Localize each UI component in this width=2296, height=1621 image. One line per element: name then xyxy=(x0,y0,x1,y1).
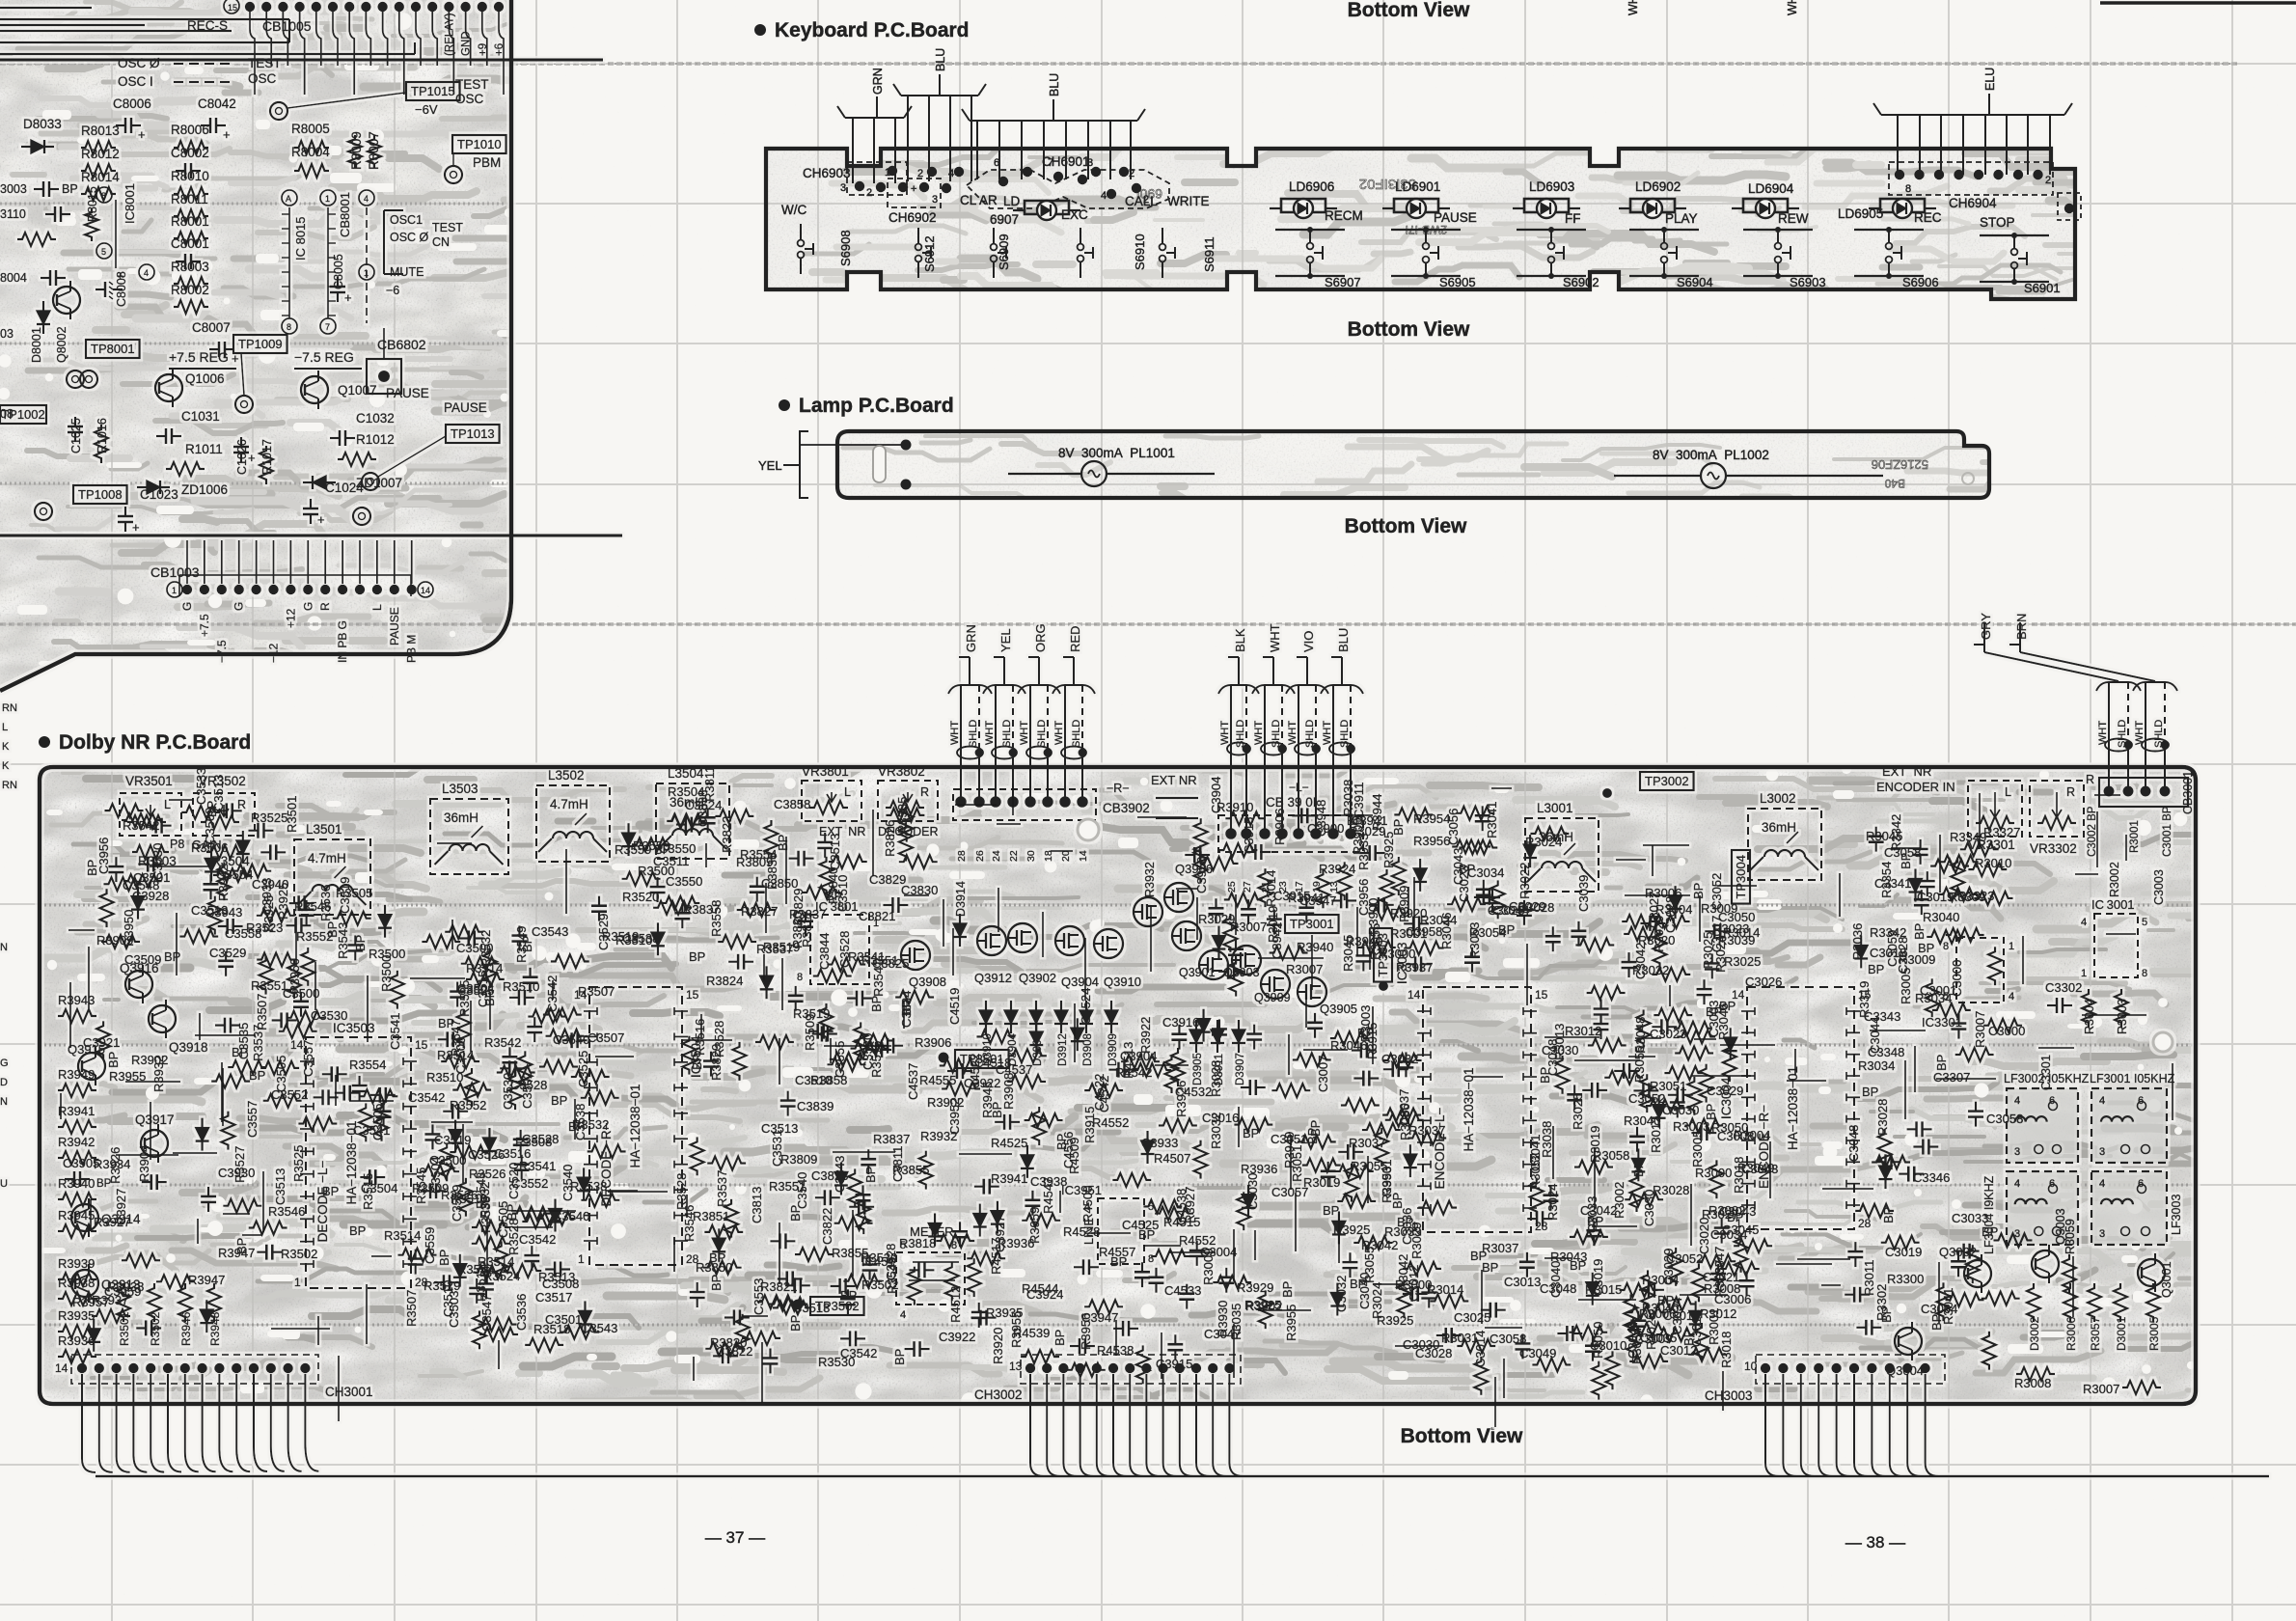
transistor Q8002 xyxy=(53,287,80,314)
horizontal wire y=555 xyxy=(0,535,622,537)
svg-text:C3542: C3542 xyxy=(519,1232,556,1247)
svg-text:BP: BP xyxy=(505,1204,519,1221)
svg-text:C3519: C3519 xyxy=(434,1133,471,1147)
svg-text:D8033: D8033 xyxy=(23,117,62,131)
svg-text:R8002: R8002 xyxy=(171,283,209,297)
svg-text:WRITE: WRITE xyxy=(1167,194,1210,208)
svg-text:BP: BP xyxy=(164,949,180,964)
svg-text:D3907: D3907 xyxy=(1235,1053,1246,1085)
svg-text:D3912: D3912 xyxy=(1057,1033,1069,1066)
svg-text:C3341: C3341 xyxy=(1874,876,1911,891)
svg-text:R3036: R3036 xyxy=(1850,923,1865,960)
svg-text:R3031: R3031 xyxy=(1441,1331,1478,1345)
svg-text:R3002: R3002 xyxy=(2108,862,2121,897)
svg-text:WH: WH xyxy=(1786,0,1799,15)
svg-text:R4552: R4552 xyxy=(1092,1115,1129,1130)
inductor L3501 xyxy=(294,839,370,915)
filter LF3002 105KHZ xyxy=(2007,1088,2078,1163)
svg-text:R4500: R4500 xyxy=(1080,1186,1095,1223)
svg-text:S6906: S6906 xyxy=(1902,275,1939,289)
svg-text:R3038: R3038 xyxy=(1341,780,1355,816)
svg-text:C3508: C3508 xyxy=(542,1277,579,1291)
svg-text:Q3909: Q3909 xyxy=(1254,991,1291,1004)
transistor Q3001 xyxy=(2138,1259,2165,1286)
FET Q3908 xyxy=(901,941,930,970)
svg-text:LD6904: LD6904 xyxy=(1748,181,1794,196)
svg-text:CB1005: CB1005 xyxy=(262,18,312,34)
test point TP1008 xyxy=(73,485,127,504)
FET Q3901 xyxy=(1199,950,1228,979)
svg-text:R4547: R4547 xyxy=(1041,1177,1055,1214)
svg-text:R3925: R3925 xyxy=(276,883,290,920)
svg-text:C4537: C4537 xyxy=(906,1063,920,1100)
svg-text:R3000: R3000 xyxy=(1695,1166,1732,1180)
svg-text:C3513: C3513 xyxy=(828,834,842,870)
svg-text:20: 20 xyxy=(1060,850,1072,862)
svg-text:C1032: C1032 xyxy=(356,411,395,426)
svg-text:R3507: R3507 xyxy=(404,1290,419,1327)
svg-text:Q3908: Q3908 xyxy=(909,975,946,989)
svg-text:TEST: TEST xyxy=(432,221,463,234)
svg-text:Q8002: Q8002 xyxy=(55,326,68,363)
transistor Q3004 xyxy=(1895,1328,1922,1355)
svg-text:C3530: C3530 xyxy=(311,1008,347,1023)
svg-text:R3938: R3938 xyxy=(58,1276,95,1290)
svg-text:R3537: R3537 xyxy=(251,1025,265,1061)
svg-text:HA−12038−01: HA−12038−01 xyxy=(1462,1067,1476,1151)
switch S6903 xyxy=(1743,229,1813,231)
svg-text:R3836: R3836 xyxy=(765,853,779,890)
svg-text:BP: BP xyxy=(1982,1224,1998,1239)
svg-text:G: G xyxy=(0,1058,9,1069)
svg-text:W/C: W/C xyxy=(781,203,806,217)
svg-text:BP: BP xyxy=(353,935,368,951)
keyboard board: light PCB texture xyxy=(766,149,2078,303)
svg-text:C3542: C3542 xyxy=(408,1090,445,1105)
svg-text:S6911: S6911 xyxy=(1202,236,1216,272)
svg-text:R4555: R4555 xyxy=(919,1073,956,1087)
svg-text:36mH: 36mH xyxy=(1762,820,1796,835)
svg-text:4: 4 xyxy=(1101,190,1107,202)
svg-text:C3823: C3823 xyxy=(811,1168,848,1183)
svg-text:R8013: R8013 xyxy=(81,124,120,138)
svg-text:R3034: R3034 xyxy=(1858,1058,1895,1073)
svg-text:Q3001: Q3001 xyxy=(2160,1261,2173,1298)
svg-text:4: 4 xyxy=(900,1309,906,1321)
svg-text:R3942: R3942 xyxy=(216,865,231,901)
svg-text:C3959: C3959 xyxy=(104,1284,141,1299)
svg-text:OSC I: OSC I xyxy=(118,74,153,89)
svg-text:R3538: R3538 xyxy=(570,1179,607,1194)
svg-text:R4513: R4513 xyxy=(1121,1042,1135,1079)
top-left schematic board border xyxy=(0,0,511,691)
svg-text:C3030: C3030 xyxy=(1245,1173,1260,1210)
svg-text:BP: BP xyxy=(869,996,884,1012)
svg-text:L: L xyxy=(370,604,384,611)
svg-text:STOP: STOP xyxy=(1980,215,2015,230)
svg-text:+: + xyxy=(132,520,140,535)
svg-text:R3818: R3818 xyxy=(899,1236,936,1250)
svg-text:D: D xyxy=(0,1077,8,1088)
IC3951 LINE dashed xyxy=(1098,1198,1144,1264)
svg-text:C4542: C4542 xyxy=(1097,1076,1111,1113)
svg-text:1: 1 xyxy=(2081,968,2087,979)
svg-text:14: 14 xyxy=(1408,988,1421,1002)
svg-text:R3012: R3012 xyxy=(1565,1024,1601,1038)
svg-text:R3525: R3525 xyxy=(291,1145,306,1182)
svg-text:R3541: R3541 xyxy=(519,1159,556,1173)
svg-text:BP: BP xyxy=(788,1205,803,1222)
svg-text:R3936: R3936 xyxy=(1241,1162,1277,1176)
svg-text:8004: 8004 xyxy=(0,271,27,285)
svg-text:C3029: C3029 xyxy=(1509,899,1545,914)
svg-text:SHLD: SHLD xyxy=(1235,720,1246,748)
svg-text:C3052: C3052 xyxy=(1628,1091,1665,1106)
svg-text:R3037: R3037 xyxy=(1482,1241,1518,1255)
svg-text:R3501: R3501 xyxy=(285,796,299,833)
svg-text:R3014: R3014 xyxy=(1264,870,1278,907)
diode D8001 xyxy=(37,311,50,324)
svg-text:C3559: C3559 xyxy=(423,1227,437,1264)
svg-text:30: 30 xyxy=(1025,850,1037,862)
svg-text:8: 8 xyxy=(2142,968,2147,979)
transistor Q3916 xyxy=(125,971,152,998)
svg-text:R3501: R3501 xyxy=(118,1311,131,1346)
svg-text:Q3912: Q3912 xyxy=(974,971,1012,985)
test point TP1002 xyxy=(0,405,46,424)
svg-text:C3517: C3517 xyxy=(535,1290,572,1305)
svg-text:4: 4 xyxy=(2009,991,2014,1003)
svg-text:CB 39 0I: CB 39 0I xyxy=(1266,795,1317,810)
svg-text:C3513: C3513 xyxy=(191,903,228,918)
svg-text:C3001: C3001 xyxy=(1920,983,1956,998)
svg-text:BP: BP xyxy=(1280,1281,1295,1298)
svg-text:BRN: BRN xyxy=(2014,614,2029,640)
svg-text:BP: BP xyxy=(689,949,705,964)
svg-text:BP: BP xyxy=(709,1275,724,1291)
svg-text:LD: LD xyxy=(1003,194,1021,208)
svg-text:R3022: R3022 xyxy=(1517,863,1532,899)
svg-text:C3032: C3032 xyxy=(1381,1052,1418,1066)
svg-text:C3500: C3500 xyxy=(283,986,319,1001)
svg-text:R3956: R3956 xyxy=(1413,834,1450,848)
svg-text:R3945: R3945 xyxy=(980,1082,995,1118)
svg-text:BP: BP xyxy=(1719,999,1736,1013)
IC3003 ENCODE -L- HA-12038-01 xyxy=(1423,987,1531,1232)
svg-text:4.7mH: 4.7mH xyxy=(550,797,588,811)
svg-text:8: 8 xyxy=(287,322,291,332)
transistor Q3913 xyxy=(71,1270,98,1297)
svg-text:BP: BP xyxy=(1657,1293,1674,1307)
test point TP3002 xyxy=(1640,772,1694,790)
svg-text:C4533: C4533 xyxy=(1164,1283,1201,1298)
switch S6912 xyxy=(917,228,919,244)
svg-text:L3501: L3501 xyxy=(306,822,342,837)
svg-text:C4519: C4519 xyxy=(947,988,962,1025)
svg-text:C8042: C8042 xyxy=(198,96,236,111)
svg-text:R3029: R3029 xyxy=(1652,916,1666,952)
FET Q3912 xyxy=(977,926,1006,955)
svg-text:R3516: R3516 xyxy=(693,1019,707,1056)
svg-text:BP: BP xyxy=(1323,1203,1339,1218)
potentiometer VR3502 xyxy=(193,793,255,836)
svg-text:R3935: R3935 xyxy=(58,1308,95,1323)
svg-text:C3916: C3916 xyxy=(1162,1015,1199,1030)
wire bundle BLU 1 xyxy=(893,84,986,96)
svg-text:4: 4 xyxy=(2099,1178,2105,1190)
svg-text:WHT: WHT xyxy=(1019,721,1030,745)
svg-text:CL AR: CL AR xyxy=(960,193,998,207)
svg-text:C3541: C3541 xyxy=(388,1013,402,1050)
svg-text:LD6901: LD6901 xyxy=(1395,179,1440,194)
svg-text:C3900: C3900 xyxy=(1307,821,1344,836)
svg-text:C3513: C3513 xyxy=(273,1168,287,1205)
switch S6911 xyxy=(1162,228,1163,244)
svg-text:14: 14 xyxy=(55,1361,68,1375)
svg-text:PAUSE: PAUSE xyxy=(386,386,429,400)
IC451 METER dashed xyxy=(896,1252,965,1305)
svg-text:— 38 —: — 38 — xyxy=(1845,1533,1905,1552)
svg-text:BP: BP xyxy=(1918,941,1934,955)
svg-text:WHT: WHT xyxy=(1268,623,1282,652)
svg-text:36mH: 36mH xyxy=(444,810,478,825)
svg-text:+: + xyxy=(117,269,123,283)
svg-text:C1031: C1031 xyxy=(181,409,220,424)
svg-text:R3947: R3947 xyxy=(188,1273,225,1287)
svg-text:R3924: R3924 xyxy=(1319,862,1355,876)
svg-text:R3851: R3851 xyxy=(693,1209,729,1223)
node BP xyxy=(34,188,43,190)
svg-text:SHLD: SHLD xyxy=(968,720,979,748)
svg-text:IC 3001: IC 3001 xyxy=(2091,897,2135,912)
title Lamp P.C.Board xyxy=(779,399,790,411)
svg-text:VIO: VIO xyxy=(1301,631,1316,652)
svg-text:WHT: WHT xyxy=(1219,721,1231,745)
svg-text:R3300: R3300 xyxy=(1887,1272,1924,1286)
svg-text:— 37 —: — 37 — xyxy=(705,1528,765,1547)
svg-text:R3941: R3941 xyxy=(991,1171,1027,1186)
svg-text:R3956: R3956 xyxy=(1079,1313,1093,1350)
svg-text:R3558: R3558 xyxy=(709,900,724,937)
svg-text:C3915: C3915 xyxy=(1273,889,1310,903)
svg-text:R3830: R3830 xyxy=(790,912,805,948)
svg-text:K: K xyxy=(2,760,10,772)
svg-text:R3028: R3028 xyxy=(1875,1099,1890,1136)
svg-text:D3908: D3908 xyxy=(1082,1033,1094,1066)
svg-text:C3504: C3504 xyxy=(361,1181,397,1195)
svg-text:R3029: R3029 xyxy=(1198,912,1235,926)
svg-text:R3542: R3542 xyxy=(484,1035,521,1050)
heavy grid band y=66 xyxy=(0,62,2238,66)
svg-text:10: 10 xyxy=(1744,1360,1758,1373)
svg-text:R3902: R3902 xyxy=(927,1095,964,1110)
svg-text:L: L xyxy=(2005,785,2011,799)
svg-text:R4509: R4509 xyxy=(1067,1138,1081,1174)
test point TP3004 xyxy=(1732,850,1750,904)
svg-text:C3933: C3933 xyxy=(1141,1136,1178,1150)
svg-text:R3001: R3001 xyxy=(1707,1308,1721,1345)
FET Q3906 xyxy=(1164,883,1193,912)
svg-text:C1023: C1023 xyxy=(140,487,178,502)
svg-text:R3537: R3537 xyxy=(715,1170,729,1207)
svg-text:BP: BP xyxy=(1052,1330,1067,1346)
svg-text:L: L xyxy=(2,722,8,733)
svg-text:R3024: R3024 xyxy=(1525,835,1562,849)
svg-text:24: 24 xyxy=(991,850,1002,862)
svg-text:C3019: C3019 xyxy=(1917,890,1954,904)
svg-text:1: 1 xyxy=(294,1276,301,1289)
svg-text:R3024: R3024 xyxy=(1545,1184,1560,1221)
svg-text:Dolby NR P.C.Board: Dolby NR P.C.Board xyxy=(59,731,251,754)
svg-text:4: 4 xyxy=(2014,1178,2020,1190)
cable group GRN/YEL/ORG/RED xyxy=(969,657,970,684)
svg-text:R3532: R3532 xyxy=(572,1117,609,1132)
svg-text:C3058: C3058 xyxy=(1490,1332,1526,1346)
svg-text:R3519: R3519 xyxy=(793,1006,830,1021)
svg-text:7: 7 xyxy=(1048,157,1053,169)
svg-text:C3543: C3543 xyxy=(581,1321,617,1335)
svg-text:OSC Ø: OSC Ø xyxy=(390,231,429,244)
svg-text:R3954: R3954 xyxy=(1413,811,1450,826)
svg-text:HA−12038−01: HA−12038−01 xyxy=(1786,1066,1800,1150)
svg-text:R3809: R3809 xyxy=(780,1152,817,1167)
svg-text:C3525: C3525 xyxy=(576,1051,590,1087)
svg-text:R3050: R3050 xyxy=(1711,1120,1748,1135)
switch S6910 xyxy=(1080,228,1081,244)
svg-text:R3957: R3957 xyxy=(72,1295,109,1309)
svg-text:C3346: C3346 xyxy=(1913,1170,1950,1185)
potentiometer VR3301 xyxy=(1968,781,2022,837)
svg-text:C8007: C8007 xyxy=(192,320,231,335)
svg-text:4: 4 xyxy=(2081,917,2087,928)
potentiometer VR3302 xyxy=(2030,781,2084,837)
svg-text:C3529: C3529 xyxy=(596,914,611,950)
svg-text:R3055: R3055 xyxy=(1362,1247,1377,1283)
wire bundle ELU (right) xyxy=(1873,103,2072,115)
svg-text:RN: RN xyxy=(2,702,17,714)
svg-text:Q3917: Q3917 xyxy=(135,1113,175,1127)
inductor L3503 xyxy=(430,799,508,874)
hole xyxy=(2153,1032,2173,1052)
svg-text:WH: WH xyxy=(1626,0,1640,15)
svg-text:ENCODER IN: ENCODER IN xyxy=(1876,780,1955,794)
svg-text:GRY: GRY xyxy=(1979,613,1993,640)
svg-text:LD6906: LD6906 xyxy=(1289,179,1334,194)
svg-text:G: G xyxy=(180,602,194,611)
svg-text:−6V: −6V xyxy=(415,102,438,117)
svg-text:R8003: R8003 xyxy=(171,260,209,274)
svg-text:WHT: WHT xyxy=(2097,721,2109,745)
svg-text:C3500: C3500 xyxy=(456,941,493,955)
transistor Q3917 xyxy=(141,1130,168,1157)
svg-text:C3557: C3557 xyxy=(245,1101,260,1138)
svg-text:R3530: R3530 xyxy=(818,1355,855,1369)
svg-text:BP: BP xyxy=(1868,962,1884,976)
svg-text:C3505: C3505 xyxy=(370,1104,385,1140)
svg-text:BP: BP xyxy=(709,1250,725,1265)
svg-text:R3049: R3049 xyxy=(1737,1161,1774,1175)
svg-text:R8014: R8014 xyxy=(81,170,120,184)
svg-text:R3936: R3936 xyxy=(998,1236,1034,1250)
svg-text:BP: BP xyxy=(1308,1120,1323,1137)
svg-text:C3930: C3930 xyxy=(218,1166,255,1180)
connector CB3901 xyxy=(1218,815,1363,852)
svg-text:R8001: R8001 xyxy=(171,214,209,229)
wire bus line xyxy=(96,1475,2269,1477)
svg-text:C3302: C3302 xyxy=(2045,980,2082,995)
svg-text:R3043: R3043 xyxy=(1550,1250,1587,1264)
transistor Q3002 xyxy=(1964,1260,1991,1287)
svg-text:R3542: R3542 xyxy=(123,818,159,833)
svg-text:PB M: PB M xyxy=(405,635,419,663)
svg-text:REW: REW xyxy=(1778,211,1809,226)
svg-text:TP1010: TP1010 xyxy=(457,137,502,151)
svg-text:R3900: R3900 xyxy=(1366,898,1380,935)
svg-text:ENCODE −L−: ENCODE −L− xyxy=(1433,1107,1447,1189)
transistor Q3918 xyxy=(149,1005,176,1032)
svg-text:C3030: C3030 xyxy=(1642,1190,1656,1226)
svg-text:BLU: BLU xyxy=(934,48,947,71)
diode row D3910-D3907 xyxy=(979,1010,993,1024)
svg-text:Q1006: Q1006 xyxy=(185,371,225,386)
svg-text:BP: BP xyxy=(1631,1161,1646,1177)
svg-text:R3929: R3929 xyxy=(1237,1280,1273,1295)
svg-text:C3025: C3025 xyxy=(1454,1310,1490,1325)
svg-text:BP: BP xyxy=(551,1093,567,1108)
svg-text:N: N xyxy=(0,942,8,953)
svg-text:C3029: C3029 xyxy=(1661,1249,1676,1285)
svg-text:8V 300mA PL1002: 8V 300mA PL1002 xyxy=(1653,448,1769,462)
svg-text:IC 8015: IC 8015 xyxy=(293,216,308,261)
svg-text:OSC: OSC xyxy=(455,92,484,106)
svg-text:C8001: C8001 xyxy=(171,236,209,251)
svg-text:TP3001: TP3001 xyxy=(1290,917,1334,931)
svg-text:BP: BP xyxy=(349,1223,366,1238)
svg-text:+7.5 REG: +7.5 REG xyxy=(169,349,229,365)
test point TP3502 xyxy=(793,1300,804,1310)
connector CB3001 xyxy=(2099,778,2188,807)
svg-text:R3933: R3933 xyxy=(1356,834,1371,870)
svg-text:R3055: R3055 xyxy=(1351,1159,1387,1173)
svg-text:C3028: C3028 xyxy=(1415,1346,1452,1360)
svg-text:BP: BP xyxy=(1704,1104,1718,1120)
svg-text:VR3802: VR3802 xyxy=(878,764,925,779)
svg-text:WHT: WHT xyxy=(1053,721,1065,745)
svg-text:BP: BP xyxy=(1681,1330,1696,1346)
svg-text:R3946: R3946 xyxy=(179,1311,193,1346)
svg-text:C3513: C3513 xyxy=(793,1301,830,1315)
svg-text:R3537: R3537 xyxy=(756,942,793,956)
svg-text:Q3901: Q3901 xyxy=(1179,966,1216,979)
svg-text:IC8001: IC8001 xyxy=(123,183,137,224)
lamp board outline xyxy=(837,431,1989,498)
svg-text:26: 26 xyxy=(974,850,986,862)
svg-text:—: — xyxy=(0,46,13,61)
svg-text:PAUSE: PAUSE xyxy=(388,607,401,646)
svg-text:R4525: R4525 xyxy=(991,1136,1027,1150)
svg-text:3: 3 xyxy=(932,194,938,206)
svg-text:+: + xyxy=(911,183,916,195)
svg-text:5216ZF06: 5216ZF06 xyxy=(1872,457,1928,472)
svg-text:6: 6 xyxy=(994,157,999,169)
svg-text:R3008: R3008 xyxy=(2014,1376,2051,1390)
svg-text:BLU: BLU xyxy=(1048,73,1061,96)
IC3503 DECODE -L- HA-12038-01 xyxy=(306,1037,411,1288)
test point TP3001 xyxy=(1285,915,1339,933)
svg-text:8: 8 xyxy=(101,191,106,201)
svg-text:BP: BP xyxy=(776,835,790,851)
svg-text:7: 7 xyxy=(325,322,330,332)
